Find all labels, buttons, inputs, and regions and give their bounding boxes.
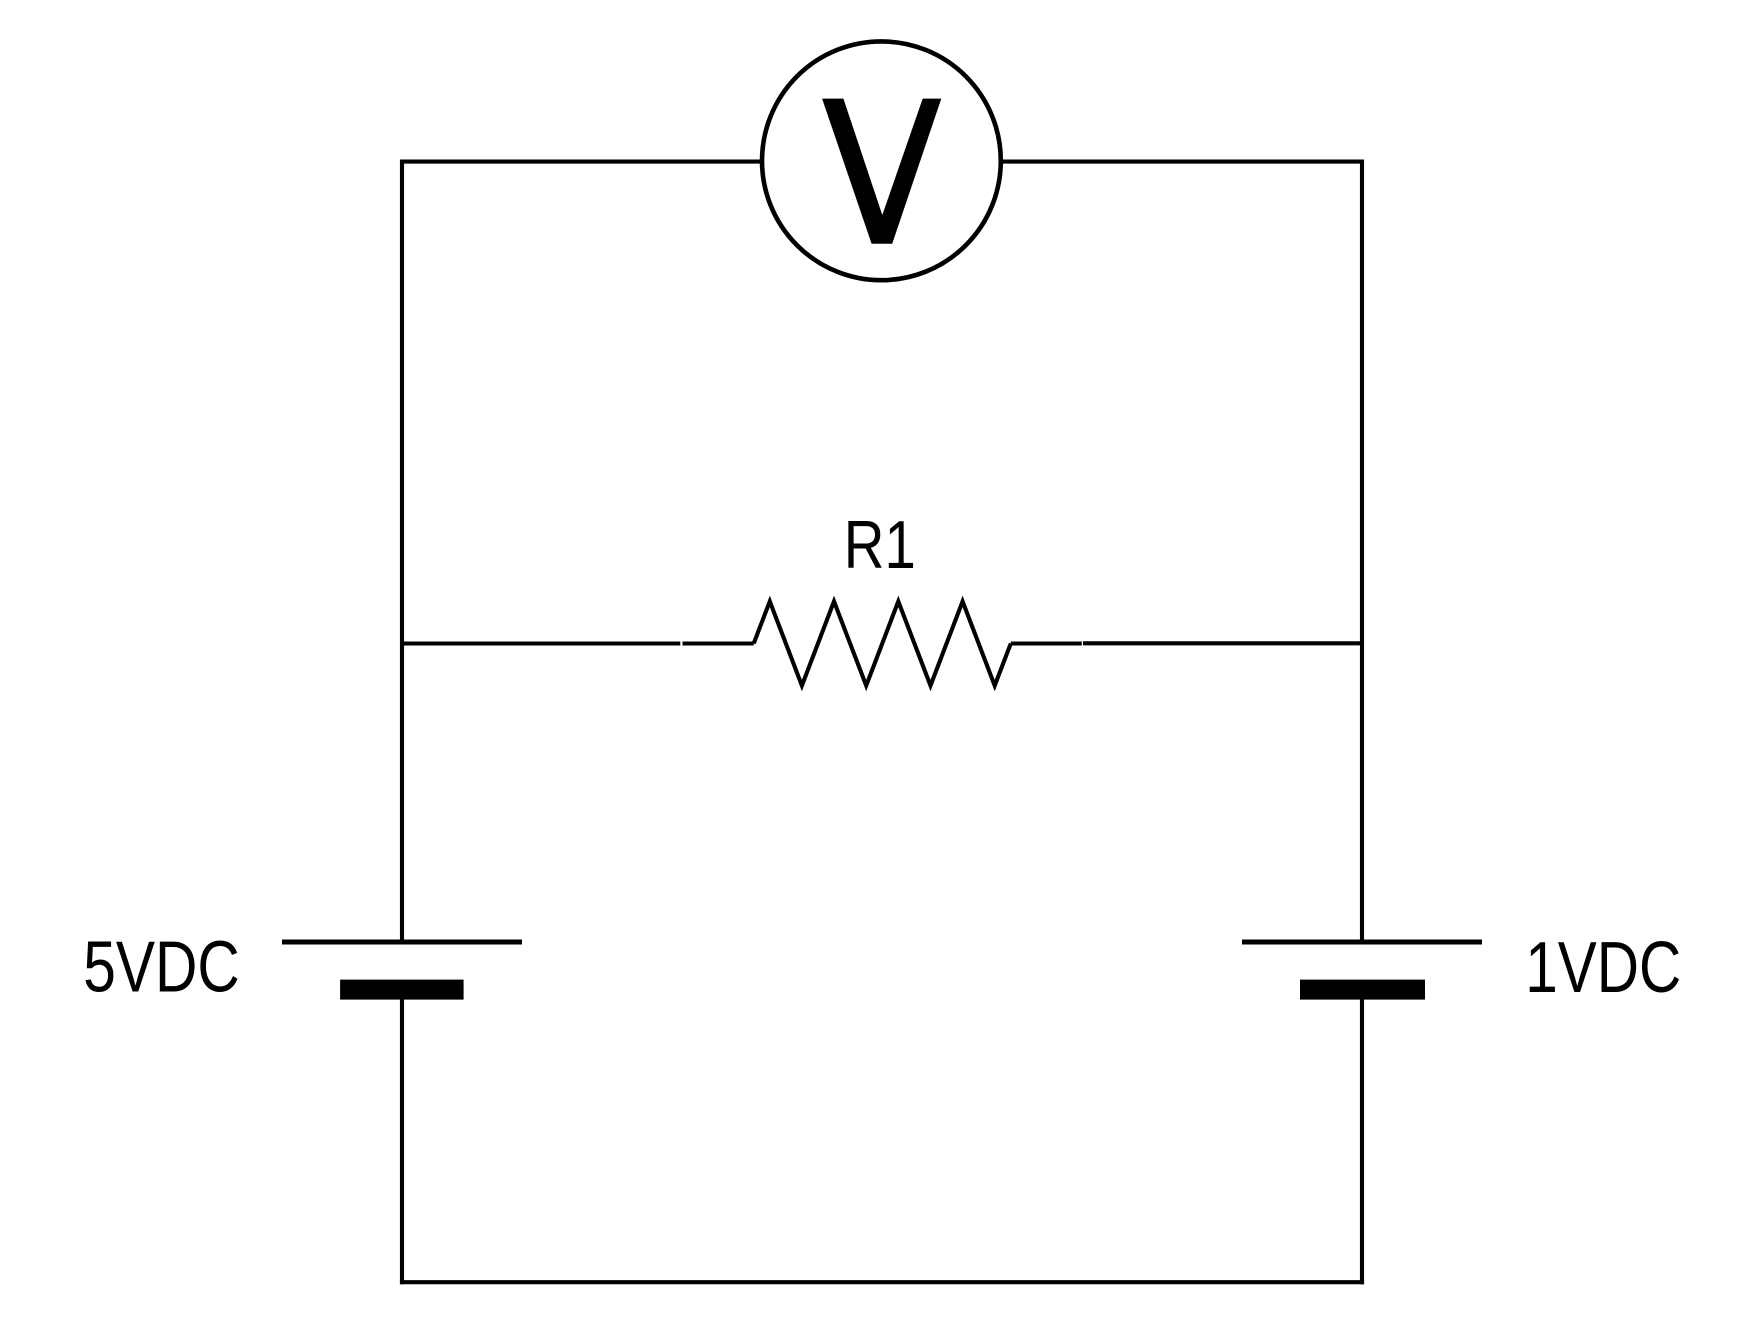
battery V1 bottom plate (negative, short thick) (340, 980, 464, 1000)
wire top-left (node A to voltmeter) (402, 160, 765, 164)
wire right vertical (node B down to battery V2) (1360, 160, 1364, 943)
wire bottom (battery V1 negative to battery V2 negative) (400, 1280, 1364, 1284)
wire middle right (to node B) (1083, 641, 1362, 645)
svg-text:R1: R1 (844, 508, 916, 583)
wire top-right (voltmeter to node B) (998, 160, 1362, 164)
resistor R1 zigzag body (754, 601, 1011, 685)
wire left vertical (node A down to battery V1) (400, 160, 404, 943)
battery V2 bottom plate (negative, short thick) (1300, 980, 1425, 1000)
battery V1 top plate (positive, long thin) (282, 940, 522, 945)
voltmeter M1 circle (762, 41, 1001, 280)
battery V2 top plate (positive, long thin) (1242, 940, 1482, 945)
wire right lower vertical (battery V2 to bottom wire) (1360, 999, 1364, 1284)
svg-text:5VDC: 5VDC (83, 927, 240, 1007)
wire resistor R1 left lead (683, 641, 754, 645)
wire left lower vertical (battery V1 to bottom wire) (400, 999, 404, 1284)
wire resistor R1 right lead (1011, 641, 1082, 645)
wire middle left (node A branch toward resistor) (402, 641, 680, 645)
svg-text:1VDC: 1VDC (1525, 928, 1681, 1008)
voltmeter M1 letter V (822, 99, 941, 244)
